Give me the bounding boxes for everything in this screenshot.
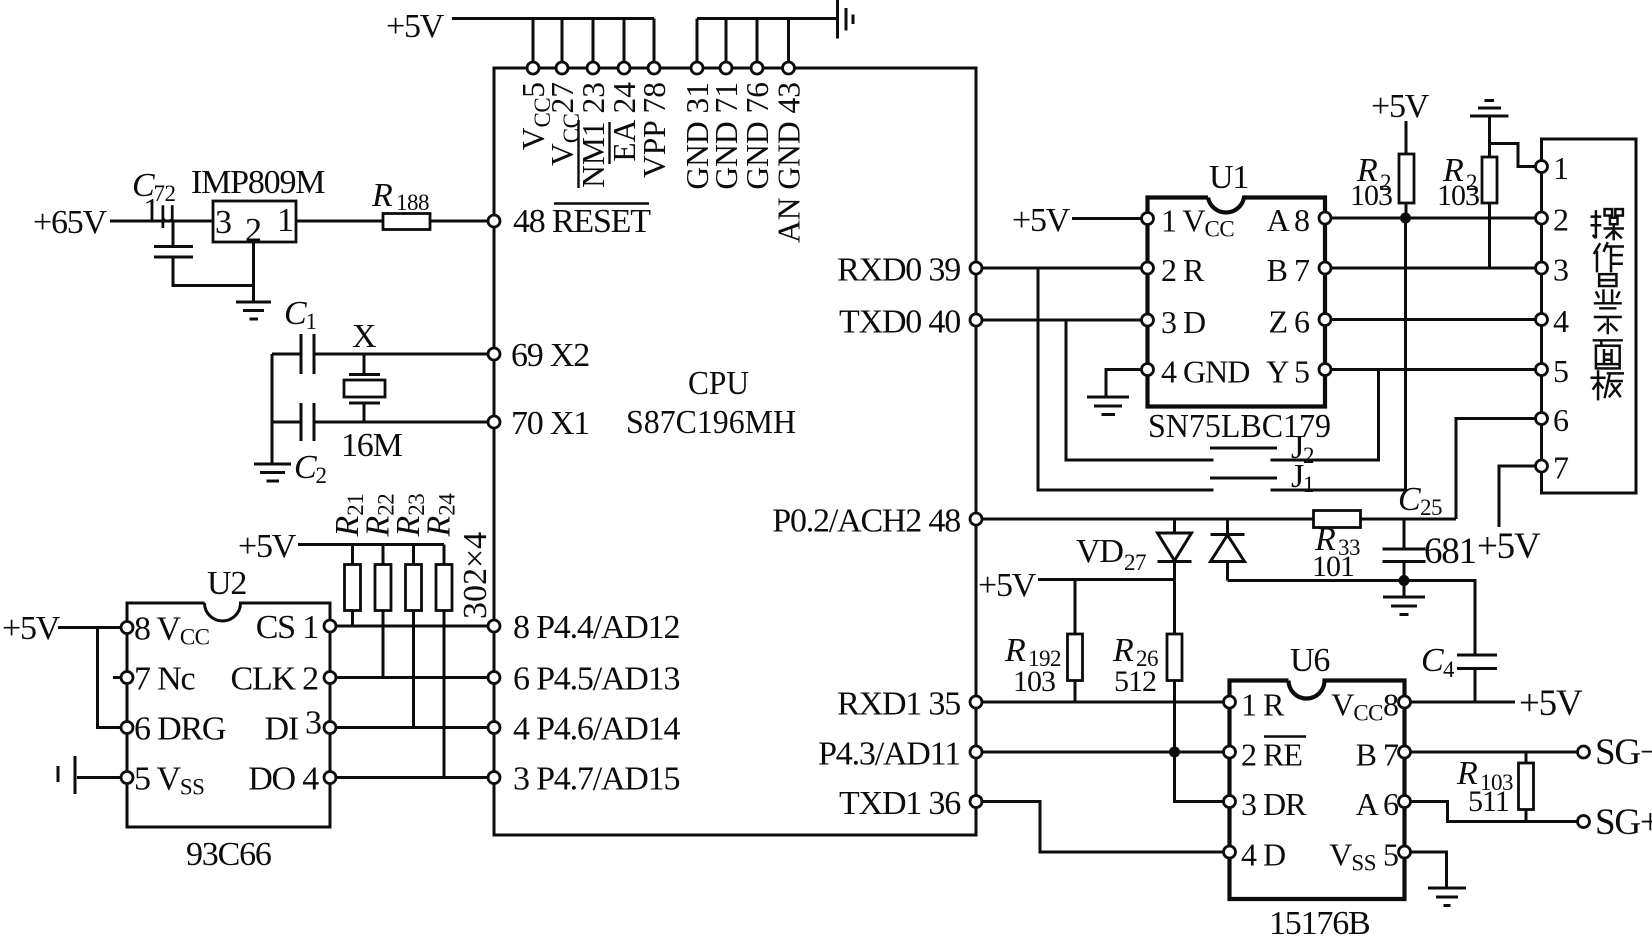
svg-text:+65V: +65V (33, 204, 108, 241)
svg-text:U1: U1 (1209, 159, 1248, 196)
svg-text:6 P4.5/AD13: 6 P4.5/AD13 (513, 661, 679, 698)
wire Y5 to panel pin5 (1331, 368, 1536, 371)
wire +5V top bus (452, 17, 654, 20)
wire RXD1 to U6 pin1 (982, 701, 1224, 704)
svg-text:16M: 16M (341, 427, 403, 464)
capacitor C72 (132, 167, 254, 286)
svg-text:2 RE: 2 RE (1241, 737, 1302, 773)
jumper J1 (1038, 218, 1406, 497)
svg-text:Z 6: Z 6 (1268, 304, 1310, 340)
svg-text:+5V: +5V (1371, 88, 1430, 125)
pin U6 Vss 5 (1329, 837, 1410, 876)
svg-text:GND 71: GND 71 (709, 82, 744, 190)
wire CS1 to CPU (336, 625, 488, 628)
svg-text:6 DRG: 6 DRG (134, 711, 226, 748)
resistor R103 (1456, 752, 1534, 822)
node A8 junction dot (1400, 213, 1411, 224)
diode VD27 b (1211, 519, 1245, 581)
resistor R2 b (1437, 152, 1497, 268)
svg-text:B 7: B 7 (1267, 252, 1310, 288)
pin 3 P4.7/AD15 (488, 761, 679, 798)
wire DO4 to CPU (336, 776, 488, 779)
svg-text:2 R: 2 R (1161, 252, 1205, 288)
transceiver U1 SN75LBC179 (1148, 159, 1332, 445)
pin U1 1 Vcc (1142, 203, 1235, 242)
svg-text:VD: VD (1076, 533, 1123, 570)
wire IMP809M pin2 to ground (252, 242, 255, 301)
pin U2 CLK 2 (230, 661, 336, 698)
svg-text:AN GND 43: AN GND 43 (771, 82, 806, 243)
node ground junction dot (1399, 575, 1410, 586)
wire CLK2 to CPU (336, 676, 488, 679)
svg-text:6: 6 (1553, 402, 1569, 438)
svg-text:3 DR: 3 DR (1241, 786, 1307, 822)
pin U6 2 RE (1224, 737, 1307, 773)
svg-text:SG+: SG+ (1595, 802, 1652, 843)
wire U6 Vss5 to ground (1411, 852, 1447, 887)
panel label CJK cao (1591, 209, 1624, 240)
ground at U1 pin4 (1087, 397, 1129, 415)
wire diode b to ground dot (1228, 581, 1476, 655)
svg-text:7: 7 (1553, 450, 1569, 486)
svg-text:3 D: 3 D (1161, 304, 1205, 340)
wire panel pin7 to +5V (1499, 466, 1536, 527)
svg-text:4 P4.6/AD14: 4 P4.6/AD14 (513, 711, 680, 748)
pin GND 76 (740, 62, 775, 190)
wire RXD0 to U1 pin2 (982, 267, 1141, 270)
svg-text:103: 103 (1013, 665, 1055, 698)
svg-text:15176B: 15176B (1269, 905, 1370, 936)
svg-text:+5V: +5V (2, 610, 61, 647)
pin U6 B 7 (1356, 737, 1411, 773)
wire +65V to IMP809M (110, 220, 213, 223)
jumper J2 (1066, 320, 1379, 468)
crystal X 16M (341, 318, 403, 464)
svg-text:8 P4.4/AD12: 8 P4.4/AD12 (513, 609, 679, 646)
diode VD27 a (1076, 519, 1192, 580)
svg-text:GND 76: GND 76 (740, 82, 775, 190)
panel label CJK shi (1594, 308, 1622, 334)
pin GND 71 (709, 62, 744, 190)
pin U2 DI 3 (265, 705, 336, 748)
pin panel 2 (1536, 202, 1569, 238)
capacitor C1 (272, 295, 488, 374)
wire +5V to U1 pin1 (1072, 217, 1141, 220)
pin U1 Y 5 (1266, 354, 1331, 390)
resistor R26 (1112, 580, 1182, 753)
svg-text:C: C (1398, 481, 1421, 518)
svg-text:25: 25 (1420, 495, 1442, 520)
ground at U6 Vss (1428, 888, 1466, 906)
svg-text:R: R (1004, 632, 1026, 669)
svg-text:3 P4.7/AD15: 3 P4.7/AD15 (513, 761, 679, 798)
pin EA 24 (607, 62, 642, 162)
svg-text:302×4: 302×4 (457, 532, 494, 619)
transceiver U6 15176B (1230, 642, 1405, 936)
resistor R23 (390, 494, 429, 728)
svg-text:69 X2: 69 X2 (511, 337, 589, 374)
wire A6 to SG+ (1411, 802, 1578, 822)
pin U2 DO 4 (248, 761, 336, 798)
svg-text:5: 5 (1553, 353, 1568, 389)
pin U6 A 6 (1356, 786, 1411, 822)
svg-text:1μ: 1μ (143, 192, 176, 229)
svg-text:Y 5: Y 5 (1266, 354, 1309, 390)
pin P0.2/ACH2 48 (772, 503, 982, 540)
pin 70 X1 (488, 405, 589, 442)
svg-text:512: 512 (1114, 665, 1156, 698)
svg-text:S87C196MH: S87C196MH (626, 404, 796, 441)
svg-text:+5V: +5V (238, 528, 297, 565)
wire GND76 stub (756, 19, 759, 63)
svg-text:X: X (352, 318, 376, 355)
svg-text:+5V: +5V (1519, 683, 1583, 724)
svg-text:2: 2 (1553, 202, 1568, 238)
resistor R2 a (1350, 121, 1414, 218)
wire GND top bus (697, 17, 836, 20)
panel label CJK mian (1593, 340, 1623, 368)
svg-text:DI: DI (265, 711, 299, 748)
pin 8 P4.4/AD12 (488, 609, 679, 646)
svg-text:A 6: A 6 (1356, 786, 1399, 822)
svg-text:3: 3 (1553, 252, 1568, 288)
pin AN GND 43 (771, 62, 806, 243)
pin panel 1 (1536, 150, 1569, 186)
pin TXD0 40 (839, 304, 982, 341)
capacitor C25 (1383, 481, 1476, 581)
wire P4.3 to U6 pin2 (982, 751, 1224, 754)
svg-text:R: R (371, 177, 393, 214)
wire GND31 stub (696, 19, 699, 63)
wire TXD0 to U1 pin3 (982, 319, 1141, 322)
svg-text:C: C (1421, 642, 1444, 679)
pin Vcc 5 (516, 62, 555, 150)
overline EA (608, 122, 610, 164)
wire R188 to RESET pin (430, 220, 488, 223)
pin U6 4 D (1224, 837, 1286, 873)
svg-text:3: 3 (215, 204, 232, 241)
svg-text:1: 1 (1553, 150, 1568, 186)
pin U1 Z 6 (1268, 304, 1331, 340)
wire dot to U6 pin3 DR (1175, 752, 1224, 802)
CPU S87C196MH box (494, 68, 976, 835)
pin U2 5 Vss (121, 761, 204, 800)
pin U1 3 D (1142, 304, 1206, 340)
svg-text:P0.2/ACH2 48: P0.2/ACH2 48 (772, 503, 960, 540)
resistor R21 (329, 494, 368, 626)
svg-text:CPU: CPU (688, 365, 749, 402)
pin 6 P4.5/AD13 (488, 661, 679, 698)
wire B7 to panel pin3 (1331, 267, 1536, 270)
pin panel 7 (1536, 450, 1570, 486)
pin panel 6 (1536, 402, 1570, 438)
wire IMP809M to R188 (296, 220, 383, 223)
svg-text:SG−: SG− (1595, 732, 1652, 773)
terminal SG+ (1578, 802, 1652, 843)
svg-text:103: 103 (1437, 179, 1479, 212)
overline NM1 (577, 120, 579, 188)
svg-text:+5V: +5V (1012, 202, 1071, 239)
resistor R33 (1312, 511, 1456, 584)
ground at U2 Vss (58, 756, 121, 794)
pin U6 1 R (1224, 687, 1286, 723)
wire +5V bus R21-R24 (298, 543, 444, 546)
svg-text:103: 103 (1350, 179, 1392, 212)
wire +5V to U2 pin8 (58, 626, 121, 629)
wire B7 to SG- (1411, 751, 1578, 754)
pin P4.3/AD11 (818, 736, 982, 773)
pin U2 8 Vcc (121, 611, 210, 650)
wire Vcc5 stub (532, 19, 535, 63)
pin U1 4 GND (1142, 354, 1250, 390)
pin U1 2 R (1142, 252, 1206, 288)
svg-text:3: 3 (305, 705, 321, 742)
ground top right (838, 0, 854, 39)
wire crystal left leg (271, 354, 274, 463)
panel label CJK zuo (1594, 242, 1624, 272)
svg-text:NM1 23: NM1 23 (576, 82, 611, 188)
svg-text:681: 681 (1424, 531, 1476, 572)
pin VPP 78 (637, 62, 672, 178)
pin U2 7 Nc (121, 661, 195, 698)
svg-text:48 RESET: 48 RESET (513, 203, 651, 240)
wire NM1 stub (592, 19, 595, 63)
pin U6 Vcc 8 (1331, 687, 1410, 726)
svg-text:4 GND: 4 GND (1161, 354, 1249, 390)
eeprom U2 93C66 (127, 565, 330, 873)
wire branch to U2 pin6 DRG (98, 628, 122, 728)
svg-text:CS 1: CS 1 (256, 609, 318, 646)
ground under IMP809M (236, 302, 271, 319)
svg-text:70 X1: 70 X1 (511, 405, 589, 442)
pin U2 CS 1 (256, 609, 336, 646)
pin panel 4 (1536, 303, 1570, 339)
svg-text:1: 1 (277, 202, 294, 239)
wire ANGND stub (787, 19, 790, 63)
svg-text:IMP809M: IMP809M (191, 164, 325, 201)
svg-text:A 8: A 8 (1267, 202, 1309, 238)
svg-text:CLK 2: CLK 2 (230, 661, 318, 698)
wire R2b node to panel pin1 (1490, 144, 1536, 167)
svg-text:B 7: B 7 (1356, 737, 1399, 773)
pin U1 B 7 (1267, 252, 1331, 288)
svg-text:+5V: +5V (1477, 526, 1541, 567)
wire P0.2 row (982, 518, 1314, 521)
ground under C2 (254, 464, 291, 481)
svg-text:RXD0 39: RXD0 39 (837, 252, 960, 289)
resistor R188 (371, 177, 430, 230)
svg-text:SN75LBC179: SN75LBC179 (1148, 408, 1331, 445)
svg-text:RXD1 35: RXD1 35 (837, 686, 960, 723)
pin U6 3 DR (1224, 786, 1308, 822)
svg-text:U6: U6 (1290, 642, 1329, 679)
pin 48 RESET (488, 203, 651, 240)
svg-text:7 Nc: 7 Nc (134, 661, 195, 698)
wire TXD1 to U6 pin4 (982, 802, 1224, 853)
svg-text:TXD1 36: TXD1 36 (839, 785, 960, 822)
svg-text:188: 188 (396, 190, 429, 215)
pin RXD1 35 (837, 686, 982, 723)
pin Vcc 27 (545, 62, 584, 166)
pin U2 6 DRG (121, 711, 226, 748)
pin U1 A 8 (1267, 202, 1331, 238)
svg-text:U2: U2 (207, 565, 246, 602)
capacitor C4 (1421, 642, 1497, 701)
svg-text:P4.3/AD11: P4.3/AD11 (818, 736, 960, 773)
pin NM1 23 (576, 62, 611, 188)
panel label CJK ban (1591, 370, 1624, 400)
svg-text:4: 4 (1553, 303, 1569, 339)
wire VPP stub (653, 19, 656, 63)
svg-text:VPP 78: VPP 78 (637, 82, 672, 178)
wire +5V clamp rail (1038, 578, 1175, 581)
svg-text:TXD0 40: TXD0 40 (839, 304, 960, 341)
wire Z6 to panel pin4 (1331, 318, 1536, 321)
svg-text:DO 4: DO 4 (248, 761, 319, 798)
pin 4 P4.6/AD14 (488, 711, 680, 748)
capacitor C2 (272, 403, 488, 488)
wire Nc stub (113, 676, 121, 679)
node P4.3 junction dot (1169, 747, 1180, 758)
wire panel pin6 down to P0.2 (1456, 419, 1536, 520)
svg-text:+5V: +5V (386, 8, 445, 45)
regulator IMP809M (191, 164, 325, 249)
pin panel 3 (1536, 252, 1569, 288)
svg-text:101: 101 (1312, 550, 1354, 583)
svg-text:4: 4 (1443, 657, 1455, 682)
terminal SG- (1578, 732, 1652, 773)
svg-text:93C66: 93C66 (186, 836, 271, 873)
pin TXD1 36 (839, 785, 982, 822)
wire Vcc27 stub (561, 19, 564, 63)
svg-text:1 R: 1 R (1241, 687, 1285, 723)
pin GND 31 (680, 62, 715, 190)
svg-text:+5V: +5V (978, 567, 1037, 604)
svg-text:4 D: 4 D (1241, 837, 1285, 873)
label 302x4 (457, 532, 494, 619)
wire DI3 to CPU (336, 726, 488, 729)
wire EA stub (623, 19, 626, 63)
resistor R24 (421, 493, 460, 778)
svg-text:511: 511 (1468, 785, 1509, 818)
panel label CJK xian (1594, 274, 1622, 303)
pin RXD0 39 (837, 252, 982, 289)
svg-text:R: R (1112, 632, 1134, 669)
wire U6 Vcc8 to +5V (1411, 701, 1516, 704)
resistor R192 (1004, 580, 1083, 703)
wire U1 pin4 to ground (1106, 370, 1142, 397)
pin 69 X2 (488, 337, 589, 374)
wire GND71 stub (725, 19, 728, 63)
resistor R22 (360, 494, 399, 678)
ground above R2b (1470, 101, 1509, 158)
wire A8 to panel pin2 (1331, 217, 1536, 220)
ground under C25 (1383, 581, 1425, 615)
svg-text:27: 27 (1124, 550, 1146, 575)
connector panel box (1542, 139, 1637, 493)
pin panel 5 (1536, 353, 1569, 389)
